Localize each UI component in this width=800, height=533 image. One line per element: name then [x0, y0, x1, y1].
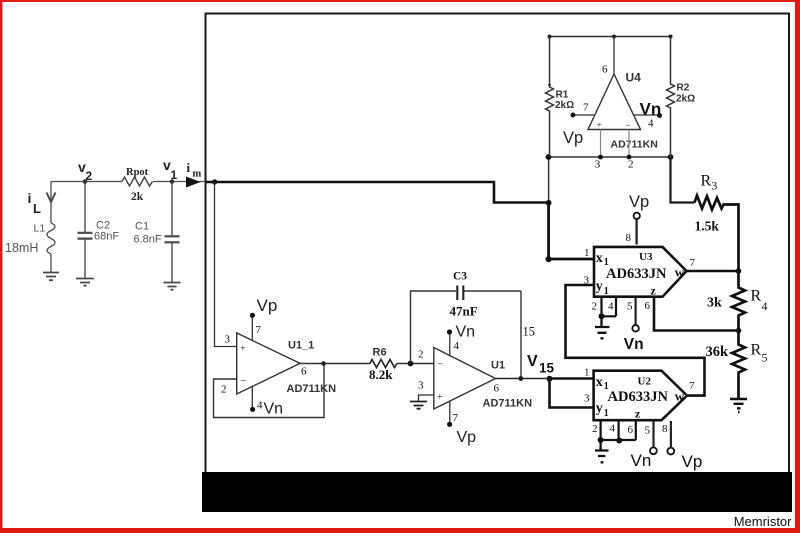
- svg-text:Vn: Vn: [456, 324, 476, 341]
- svg-text:−: −: [437, 359, 443, 371]
- pin 8 terminal Vp: [670, 421, 672, 448]
- svg-text:3: 3: [584, 393, 590, 405]
- wire pin3 to ground: [419, 395, 434, 401]
- svg-text:AD711KN: AD711KN: [287, 383, 337, 395]
- svg-text:2: 2: [221, 384, 227, 396]
- pin 5 terminal Vn: [652, 421, 654, 448]
- op-amp U1_1: [237, 333, 300, 394]
- op-amp U4 (pointing up): [588, 74, 641, 130]
- wire z to R4R5 node: [654, 298, 739, 331]
- node U4 bottom rail junctions: [546, 154, 552, 160]
- node v1: [170, 179, 175, 184]
- svg-text:Vp: Vp: [682, 452, 703, 471]
- ground (C2): [76, 279, 94, 286]
- svg-text:8.2k: 8.2k: [369, 367, 393, 382]
- svg-text:2kΩ: 2kΩ: [555, 100, 574, 111]
- wire rail to U3 x1: [548, 157, 550, 203]
- node U1_1 feedback junction: [321, 361, 326, 366]
- svg-text:4: 4: [257, 400, 263, 412]
- svg-text:i: i: [187, 160, 191, 175]
- svg-text:15: 15: [539, 361, 555, 376]
- multiplier U3 body: [594, 247, 687, 297]
- svg-text:4: 4: [608, 301, 614, 313]
- wire U4 top rail: [550, 36, 671, 38]
- ground (C1): [164, 283, 181, 290]
- svg-text:7: 7: [256, 324, 262, 336]
- resistor R2: [667, 37, 675, 158]
- U2 bottom pins: [601, 421, 636, 440]
- svg-text:1: 1: [584, 247, 590, 259]
- svg-text:7: 7: [583, 102, 589, 114]
- svg-text:7: 7: [689, 380, 695, 392]
- svg-text:AD633JN: AD633JN: [608, 389, 669, 405]
- wire V15 to U2 x1: [550, 377, 595, 380]
- memristor box bottom black bar: [202, 472, 792, 512]
- pin 7 (Vp): [449, 401, 451, 424]
- svg-text:C3: C3: [453, 271, 467, 283]
- svg-text:2k: 2k: [131, 191, 144, 203]
- svg-text:R1: R1: [556, 90, 569, 101]
- svg-text:1: 1: [604, 286, 609, 297]
- svg-text:w: w: [675, 265, 685, 280]
- svg-text:1: 1: [584, 367, 590, 379]
- capacitor C1: [171, 182, 173, 283]
- svg-text:Vp: Vp: [629, 193, 649, 211]
- capacitor C3: [457, 286, 463, 301]
- svg-text:L1: L1: [34, 223, 46, 235]
- svg-text:7: 7: [453, 412, 459, 424]
- svg-text:15: 15: [523, 325, 536, 339]
- svg-text:5: 5: [762, 351, 768, 365]
- multiplier U2 body: [594, 371, 687, 421]
- svg-text:2: 2: [628, 159, 634, 171]
- node C3 right leg junction: [518, 376, 523, 381]
- pin 8 terminal Vp: [635, 219, 637, 245]
- node U4 top rail junctions: [548, 35, 552, 39]
- svg-text:3k: 3k: [707, 296, 722, 311]
- svg-text:m: m: [193, 169, 202, 180]
- svg-text:Vn: Vn: [264, 401, 284, 418]
- svg-text:3: 3: [595, 159, 601, 171]
- svg-text:1: 1: [604, 408, 609, 419]
- svg-text:AD711KN: AD711KN: [483, 398, 533, 410]
- svg-text:4: 4: [648, 118, 654, 130]
- node im rail junction: [546, 200, 552, 206]
- svg-text:18mH: 18mH: [5, 241, 38, 255]
- resistor R1: [546, 37, 554, 158]
- svg-text:i: i: [28, 190, 32, 206]
- svg-text:8: 8: [626, 232, 632, 244]
- svg-text:R: R: [701, 173, 712, 190]
- svg-text:3: 3: [712, 181, 718, 193]
- svg-text:4: 4: [762, 299, 768, 313]
- svg-text:4: 4: [454, 340, 460, 352]
- svg-text:Rpot: Rpot: [126, 167, 149, 178]
- svg-text:Vp: Vp: [257, 296, 278, 315]
- svg-text:47nF: 47nF: [450, 304, 478, 319]
- resistor R6: [370, 360, 397, 368]
- resistor R4: [732, 271, 745, 331]
- iL arrow: [47, 193, 56, 203]
- svg-text:V: V: [527, 353, 538, 370]
- svg-text:Vn: Vn: [631, 451, 652, 470]
- node R6 / C3 / U1 pin2 junction: [408, 361, 414, 367]
- svg-text:AD711KN: AD711KN: [611, 139, 658, 151]
- svg-text:+: +: [437, 392, 443, 403]
- svg-text:AD633JN: AD633JN: [606, 266, 667, 282]
- svg-text:Vn: Vn: [624, 336, 644, 353]
- svg-text:6: 6: [628, 424, 634, 436]
- wire U2 w feedback to U3 y1: [566, 285, 705, 396]
- pin 5 terminal Vn: [634, 298, 636, 325]
- pin 3 wire: [600, 130, 602, 158]
- svg-text:4: 4: [610, 423, 616, 435]
- ground (U2): [595, 440, 609, 462]
- ground (L1): [43, 273, 59, 281]
- svg-text:L: L: [33, 201, 41, 216]
- svg-text:Vp: Vp: [457, 429, 477, 446]
- pin 7 (Vp): [251, 315, 253, 340]
- pin 7 wire: [573, 114, 595, 116]
- node U3 x1 junction: [546, 256, 552, 262]
- svg-text:5: 5: [627, 301, 633, 313]
- resistor R5: [732, 331, 745, 399]
- resistor R3: [671, 157, 695, 203]
- svg-text:6: 6: [602, 64, 608, 76]
- svg-text:3: 3: [418, 380, 424, 392]
- wire U4 bottom rail: [549, 156, 671, 158]
- svg-text:2: 2: [86, 169, 93, 183]
- arrow im: [186, 177, 201, 188]
- svg-text:z: z: [635, 407, 641, 421]
- svg-text:6: 6: [645, 300, 651, 312]
- svg-text:R: R: [751, 288, 762, 305]
- capacitor C2: [78, 182, 93, 279]
- ground (R5): [730, 399, 747, 412]
- svg-text:U2: U2: [638, 376, 652, 388]
- svg-text:1.5k: 1.5k: [695, 219, 720, 234]
- svg-text:36k: 36k: [706, 344, 730, 360]
- svg-text:6.8nF: 6.8nF: [134, 234, 162, 246]
- node V15: [547, 376, 553, 382]
- svg-text:U1_1: U1_1: [288, 340, 314, 352]
- svg-text:C1: C1: [135, 221, 149, 233]
- ground (U3): [595, 316, 610, 338]
- resistor Rpot: [122, 177, 153, 186]
- U3 bottom pins: [602, 298, 617, 316]
- svg-text:R6: R6: [373, 347, 387, 359]
- pin 6 wire: [613, 37, 615, 75]
- svg-text:U4: U4: [626, 71, 642, 85]
- svg-text:6: 6: [494, 383, 500, 395]
- wire feedback U1_1: [214, 364, 325, 418]
- svg-text:Vn: Vn: [640, 100, 662, 119]
- node R4-R5: [736, 328, 742, 334]
- wire U3 w out: [687, 270, 739, 273]
- svg-text:8: 8: [662, 423, 668, 435]
- wire C3 loop: [411, 291, 522, 379]
- wire im main: [206, 182, 549, 203]
- pin 4 (Vn): [251, 387, 253, 409]
- svg-text:3: 3: [225, 334, 231, 346]
- wire U1 out V15: [496, 378, 550, 380]
- svg-text:3: 3: [584, 275, 590, 287]
- wire to U1_1 pin3: [215, 182, 238, 347]
- wire V15 to U2 y1: [550, 379, 595, 408]
- op-amp U1: [434, 348, 496, 410]
- svg-text:68nF: 68nF: [94, 231, 119, 243]
- svg-text:x: x: [596, 251, 603, 266]
- svg-text:6: 6: [301, 366, 307, 378]
- svg-text:2: 2: [418, 349, 424, 361]
- memristor box frame: [206, 14, 790, 475]
- svg-text:Memristor: Memristor: [734, 514, 792, 529]
- svg-text:2: 2: [592, 423, 598, 435]
- svg-text:−: −: [240, 375, 246, 387]
- svg-text:+: +: [597, 120, 602, 130]
- svg-text:5: 5: [645, 425, 651, 437]
- svg-text:+: +: [240, 344, 246, 355]
- svg-text:w: w: [675, 388, 685, 403]
- pin 4 (Vn): [449, 333, 451, 356]
- svg-text:y: y: [596, 401, 603, 416]
- inductor L1: [47, 182, 55, 273]
- svg-text:U3: U3: [639, 251, 653, 263]
- svg-text:x: x: [596, 375, 603, 390]
- wire v2 rail: [51, 181, 206, 183]
- svg-text:R2: R2: [677, 83, 690, 94]
- pin 2 wire: [628, 130, 630, 158]
- node at im branch: [212, 179, 217, 184]
- svg-text:1: 1: [171, 168, 178, 182]
- svg-text:Vp: Vp: [563, 129, 583, 147]
- svg-text:y: y: [596, 279, 603, 294]
- pin 4 wire: [633, 114, 660, 116]
- svg-text:R: R: [751, 342, 762, 359]
- svg-text:2: 2: [592, 301, 598, 313]
- wire R6 to U1: [397, 363, 434, 365]
- wire U1_1 out: [300, 363, 370, 365]
- node U3 w / R3 / R4 junction: [736, 268, 742, 274]
- svg-text:U1: U1: [491, 360, 505, 372]
- svg-text:z: z: [651, 283, 657, 297]
- node v2: [83, 179, 88, 184]
- svg-text:−: −: [626, 120, 631, 130]
- ground (U1 +): [410, 402, 427, 409]
- svg-text:7: 7: [690, 257, 696, 269]
- svg-text:2kΩ: 2kΩ: [676, 94, 695, 105]
